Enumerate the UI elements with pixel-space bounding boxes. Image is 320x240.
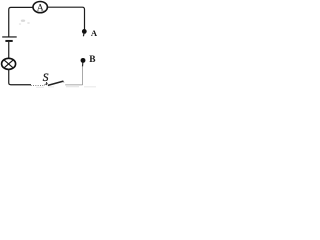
ammeter A bbox=[33, 2, 47, 14]
svg-text:A: A bbox=[91, 28, 98, 38]
svg-text:A: A bbox=[37, 2, 44, 13]
wire bbox=[47, 7, 84, 29]
wire bbox=[31, 85, 45, 87]
switch S bbox=[45, 81, 65, 85]
svg-text:S: S bbox=[43, 72, 49, 84]
wire bbox=[9, 7, 33, 37]
wire bbox=[82, 63, 84, 67]
svg-text:B: B bbox=[89, 55, 95, 65]
battery bbox=[2, 37, 17, 41]
node A bbox=[82, 29, 87, 36]
wire bbox=[8, 42, 10, 58]
lamp bbox=[2, 58, 16, 69]
node B bbox=[81, 58, 86, 63]
wire bbox=[9, 70, 31, 85]
wire bbox=[65, 84, 82, 86]
wire bbox=[82, 67, 84, 85]
scan noise bbox=[19, 20, 96, 88]
